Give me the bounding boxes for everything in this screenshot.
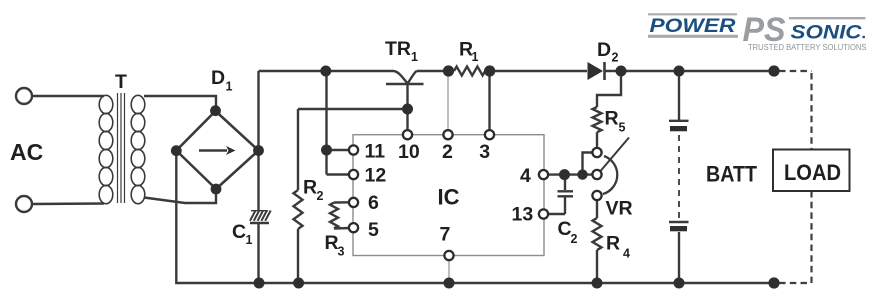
svg-text:R: R [303, 177, 317, 199]
svg-text:12: 12 [365, 164, 387, 186]
svg-text:R: R [606, 233, 620, 255]
svg-text:2: 2 [571, 232, 578, 246]
svg-text:6: 6 [368, 192, 379, 214]
svg-text:D: D [211, 67, 225, 89]
svg-text:TRUSTED BATTERY SOLUTIONS: TRUSTED BATTERY SOLUTIONS [748, 43, 867, 52]
svg-text:1: 1 [411, 50, 418, 64]
svg-text:13: 13 [512, 204, 534, 226]
svg-text:11: 11 [365, 141, 386, 163]
svg-text:2: 2 [612, 51, 619, 65]
svg-text:BATT: BATT [706, 162, 757, 187]
svg-text:10: 10 [398, 141, 420, 163]
svg-text:D: D [597, 39, 611, 61]
svg-text:2: 2 [442, 141, 453, 163]
svg-text:4: 4 [623, 247, 630, 261]
svg-text:T: T [115, 71, 127, 93]
svg-text:7: 7 [440, 224, 451, 246]
svg-text:C: C [232, 221, 246, 243]
svg-text:VR: VR [606, 198, 633, 220]
svg-text:R: R [325, 232, 339, 254]
svg-text:POWER: POWER [650, 15, 736, 37]
svg-text:1: 1 [472, 50, 479, 64]
svg-text:4: 4 [520, 165, 531, 187]
svg-text:AC: AC [10, 139, 43, 165]
svg-text:IC: IC [438, 185, 460, 210]
svg-text:LOAD: LOAD [784, 160, 841, 185]
svg-text:1: 1 [246, 233, 253, 247]
svg-text:3: 3 [338, 245, 345, 259]
svg-text:5: 5 [619, 121, 626, 135]
svg-text:R: R [605, 108, 619, 130]
svg-text:SONIC: SONIC [791, 22, 863, 44]
svg-text:C: C [558, 218, 572, 240]
svg-text:2: 2 [317, 189, 324, 203]
svg-text:1: 1 [226, 80, 233, 94]
svg-text:5: 5 [368, 219, 379, 241]
svg-text:3: 3 [479, 141, 490, 163]
svg-text:TR: TR [385, 38, 411, 60]
